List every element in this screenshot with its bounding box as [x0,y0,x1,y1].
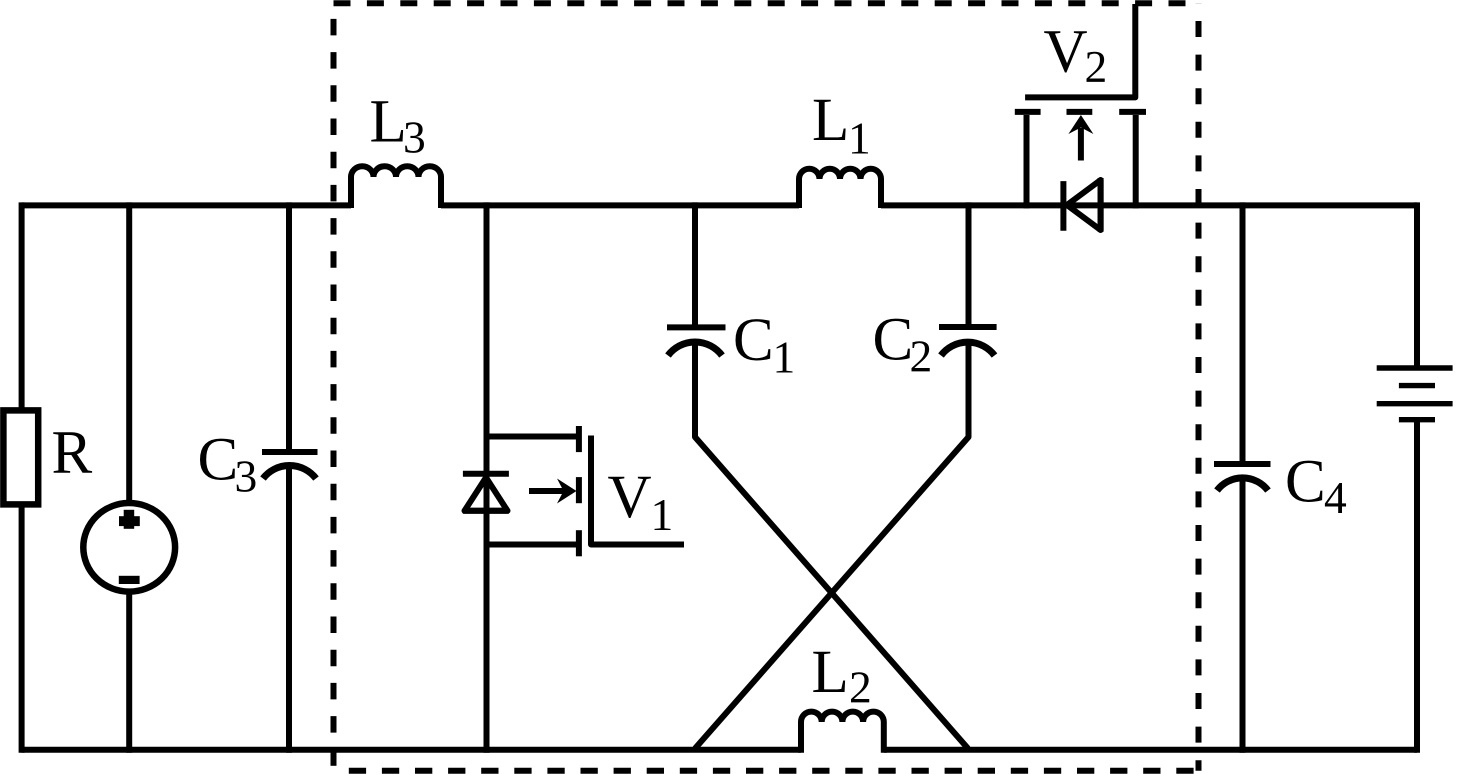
svg-text:2: 2 [910,331,933,382]
mosfet V2 diode anode bar [1098,178,1104,232]
wire source branch lower [126,592,132,753]
mosfet V2 channel and gate lead [1025,4,1135,97]
wire C3 branch lower [286,464,292,753]
mosfet V1 drain lead [487,434,577,440]
mosfet V2 gate arrow [1068,115,1093,161]
wire left outer branch upper [19,202,25,408]
svg-text:V: V [608,464,652,531]
wire source branch upper [126,202,132,503]
capacitor C4 top plate [1214,461,1271,467]
svg-text:L: L [812,87,849,154]
wire C4 branch upper [1240,202,1246,464]
svg-text:3: 3 [235,451,258,502]
wire C4 branch lower [1240,477,1246,753]
dashed box bottom border [334,768,1199,774]
capacitor C4 curved plate [1217,478,1268,491]
svg-text:C: C [198,427,239,494]
svg-text:C: C [873,307,914,374]
mosfet V1 channel and gate lead [591,436,684,545]
svg-text:C: C [733,307,774,374]
battery plate short upper [1399,383,1435,388]
inductor L2 [801,712,884,753]
battery plate long top [1377,365,1453,370]
capacitor C1 curved plate [668,342,722,355]
wire C1 branch upper [692,202,698,327]
mosfet V1 body diode triangle [465,478,508,511]
mosfet V2 drain contact bar [1015,109,1041,115]
svg-text:L: L [370,89,407,156]
mosfet V1 body diode cathode bar [463,471,509,477]
dashed box left border [331,3,337,771]
resistor R [3,410,38,504]
svg-text:1: 1 [651,489,674,540]
svg-text:1: 1 [773,332,796,383]
svg-text:4: 4 [1324,472,1347,523]
svg-text:3: 3 [403,112,426,163]
svg-text:2: 2 [1085,41,1108,92]
mosfet V2 drain lead [1024,115,1030,208]
mosfet V2 source lead [1133,115,1139,208]
wire top rail left segment [22,202,351,208]
capacitor C3 curved plate [263,465,316,478]
mosfet V1 source contact bar [576,530,582,556]
mosfet V2 diode triangle [1067,180,1101,230]
battery plate short lower [1399,417,1435,422]
wire right outer branch lower [1414,420,1420,753]
wire C3 branch upper [286,202,292,452]
inductor L3 [351,166,441,208]
svg-text:C: C [1285,449,1326,516]
wire C2 branch lower and crossing diagonal [695,341,969,749]
mosfet V1 drain contact bar [576,426,582,452]
mosfet V2 gate contact bar [1067,109,1093,115]
mosfet V1 gate arrow [529,479,577,504]
mosfet V1 body diode anode bar [463,508,509,514]
wire V1 branch [484,202,490,752]
wire right outer branch upper [1414,202,1420,368]
wire top rail middle segment [441,202,799,208]
wire top rail right segment [881,202,1417,208]
svg-text:1: 1 [848,113,871,164]
dashed box right border [1196,3,1202,771]
voltage source plus sign [119,510,140,529]
battery plate long bottom [1377,401,1453,406]
wire bottom rail left segment [22,747,801,753]
wire bottom rail right segment [884,747,1417,753]
svg-text:L: L [812,639,849,706]
mosfet V1 source lead [487,542,577,548]
mosfet V2 diode cathode bar [1060,181,1066,231]
mosfet V2 source contact bar [1119,109,1146,115]
voltage source minus sign [119,576,140,584]
mosfet V1 gate contact bar [576,477,582,503]
capacitor C1 top plate [667,324,726,330]
voltage source circle [83,503,175,592]
svg-text:2: 2 [849,662,872,713]
capacitor C2 curved plate [941,342,995,355]
wire left outer branch lower [19,507,25,753]
capacitor C3 top plate [262,449,318,455]
inductor L1 [799,169,881,208]
wire C1 branch lower and crossing diagonal [695,341,968,749]
svg-text:R: R [52,420,93,487]
svg-text:V: V [1044,19,1088,86]
capacitor C2 top plate [939,324,997,330]
wire C2 branch upper [966,202,972,327]
dashed box top border [334,0,1199,6]
